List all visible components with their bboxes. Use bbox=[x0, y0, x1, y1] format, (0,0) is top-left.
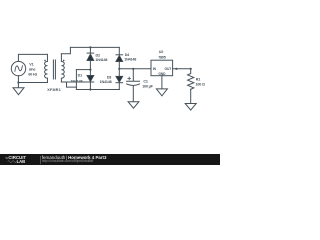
wire D2 anode to D1 bbox=[89, 61, 91, 76]
wire midpoint riser bbox=[75, 70, 77, 90]
wire top rail bbox=[70, 46, 119, 48]
svg-text:GND: GND bbox=[158, 72, 166, 76]
svg-text:1N4148: 1N4148 bbox=[71, 79, 83, 83]
svg-text:OUT: OUT bbox=[164, 67, 171, 71]
phase dot secondary bbox=[63, 60, 65, 62]
plus sign C1 bbox=[128, 77, 131, 80]
ground below U2 bbox=[156, 89, 167, 96]
wire secondary bottom horizontal bbox=[61, 81, 86, 83]
svg-text:sine: sine bbox=[29, 68, 36, 72]
node junction dot V1 bottom bbox=[17, 81, 19, 83]
transformer XFMR1 secondary coil bbox=[61, 54, 64, 82]
svg-text:C1: C1 bbox=[143, 80, 147, 84]
diode D3 bbox=[116, 76, 123, 82]
wire D1 cathode to bottom rail bbox=[89, 82, 91, 90]
wire R1 to ground bbox=[190, 89, 192, 103]
svg-text:D2: D2 bbox=[96, 54, 100, 58]
logo waveforms bbox=[0, 154, 30, 165]
svg-text:1N4148: 1N4148 bbox=[100, 80, 112, 84]
node R1 top dot bbox=[190, 68, 192, 70]
wire bottom rail bbox=[76, 89, 119, 91]
wire secondary top to top rail bbox=[61, 47, 70, 53]
diode D4 bbox=[116, 54, 123, 56]
ground below V1 bbox=[13, 83, 24, 95]
footer bar bbox=[0, 154, 220, 165]
voltage source V1 bbox=[11, 61, 25, 75]
wire V1 top to transformer primary bbox=[18, 54, 47, 61]
wire U2 GND stem bbox=[161, 76, 163, 89]
wire V1 bottom to transformer primary bbox=[18, 76, 47, 83]
regulator U2 box bbox=[151, 60, 173, 75]
svg-text:D4: D4 bbox=[125, 53, 130, 57]
wire U2 OUT to R1 bbox=[173, 68, 191, 70]
resistor R1 bbox=[188, 69, 194, 90]
credit line 2 bbox=[42, 160, 93, 163]
node C1 junction dot bbox=[132, 68, 134, 70]
wire right midpoint to U2 IN bbox=[119, 68, 151, 70]
wire left midpoint horizontal bbox=[76, 69, 90, 71]
svg-text:U2: U2 bbox=[159, 50, 163, 54]
wire D2 stub bbox=[89, 47, 91, 53]
svg-text:D3: D3 bbox=[107, 76, 111, 80]
ground below R1 bbox=[185, 104, 196, 111]
svg-text:100 µF: 100 µF bbox=[142, 84, 153, 88]
node U2 OUT pin dot bbox=[175, 68, 177, 70]
svg-text:1N4148: 1N4148 bbox=[95, 58, 107, 62]
svg-text:60 Hz: 60 Hz bbox=[28, 72, 37, 76]
svg-text:D1: D1 bbox=[78, 74, 82, 78]
svg-text:IN: IN bbox=[153, 67, 157, 71]
node bottom rail junction dot bbox=[89, 88, 91, 90]
node left midpoint junction dot bbox=[89, 69, 91, 71]
svg-text:V1: V1 bbox=[29, 63, 33, 67]
ground below C1 bbox=[128, 102, 139, 109]
svg-text:100 Ω: 100 Ω bbox=[196, 83, 205, 87]
svg-text:7805: 7805 bbox=[158, 56, 166, 60]
diode D1 bbox=[87, 75, 94, 81]
diode D2 bbox=[87, 52, 94, 54]
capacitor C1 bbox=[127, 69, 140, 82]
wire C1 to ground bbox=[132, 86, 134, 102]
transformer XFMR1 primary coil bbox=[45, 54, 48, 82]
node right midpoint junction dot bbox=[118, 68, 120, 70]
svg-text:1N4148: 1N4148 bbox=[124, 58, 136, 62]
node top rail D2 junction dot bbox=[89, 46, 91, 48]
svg-text:R1: R1 bbox=[196, 77, 200, 81]
wire D4 anode to D3 bbox=[118, 62, 120, 77]
wire jog down bbox=[67, 82, 77, 87]
credit line 1 bbox=[42, 156, 107, 160]
wire top rail corner to D4 bbox=[118, 47, 120, 54]
svg-text:XFMR1: XFMR1 bbox=[47, 88, 61, 92]
wire D3 cathode to bottom rail bbox=[118, 83, 120, 90]
phase dot primary bbox=[44, 60, 46, 62]
CircuitLab logo bbox=[8, 156, 26, 160]
separator bbox=[39, 156, 42, 164]
